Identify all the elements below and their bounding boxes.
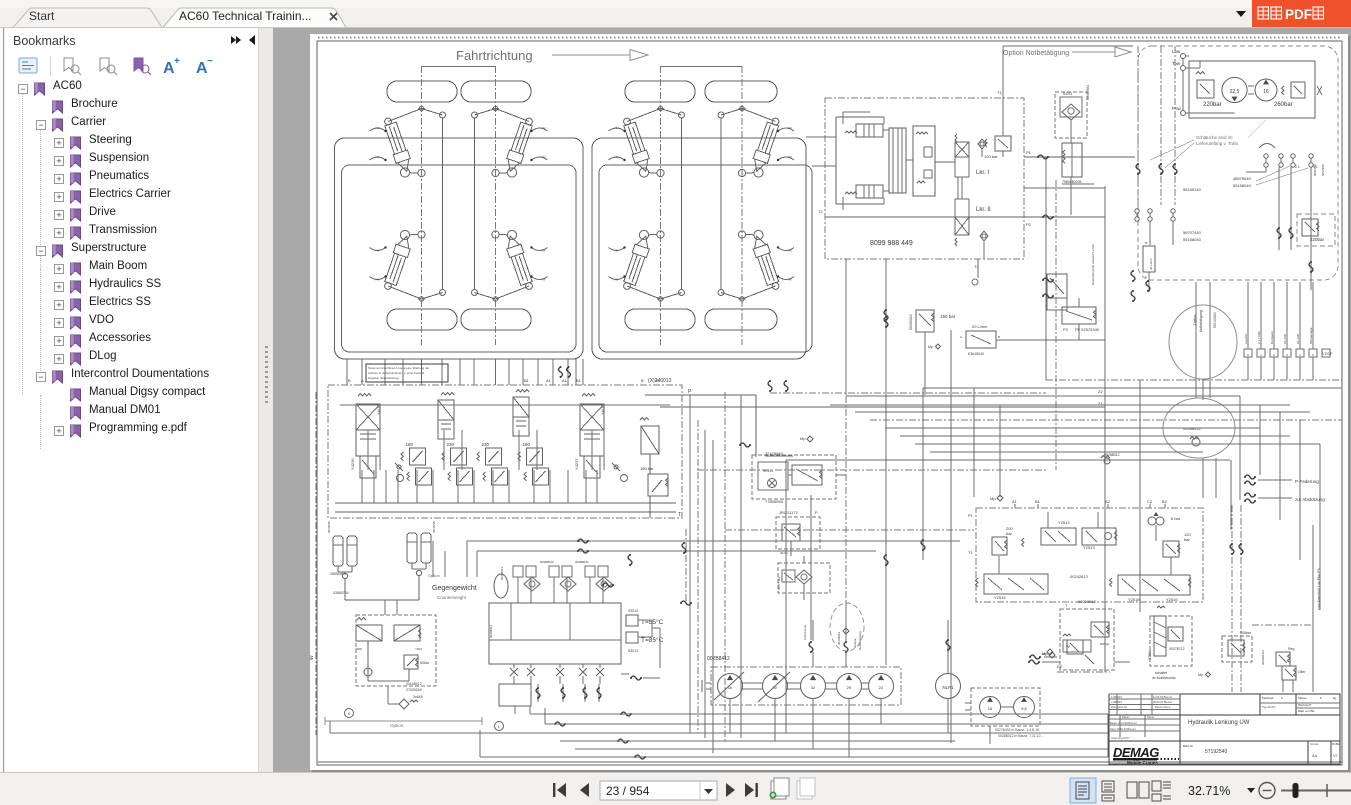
svg-text:K3b16040: K3b16040 — [968, 352, 984, 356]
svg-text:4 491223: 4 491223 — [1111, 695, 1122, 699]
svg-text:29: 29 — [847, 685, 852, 690]
svg-text:A1: A1 — [546, 378, 552, 383]
svg-text:A: A — [361, 378, 364, 383]
svg-text:Fahrtrichtung: Fahrtrichtung — [456, 48, 533, 63]
svg-text:220bar: 220bar — [1203, 102, 1222, 108]
svg-text:Maßstab: Maßstab — [1262, 696, 1274, 700]
svg-text:8091049: 8091049 — [1313, 164, 1317, 176]
svg-text:NV: NV — [615, 126, 619, 130]
svg-text:Zust Aend.-Nr.: Zust Aend.-Nr. — [1111, 705, 1128, 709]
svg-text:3 483223: 3 483223 — [1111, 700, 1122, 704]
svg-text:57192540: 57192540 — [1205, 749, 1227, 755]
svg-text:23 / 954: 23 / 954 — [606, 784, 650, 798]
svg-text:00278712: 00278712 — [1169, 647, 1185, 651]
svg-text:NLP1: NLP1 — [942, 685, 954, 690]
svg-text:Hydraulik Lenkung UW: Hydraulik Lenkung UW — [1188, 720, 1250, 726]
svg-text:11.03.04 Bremer: 11.03.04 Bremer — [1153, 695, 1172, 699]
svg-text:NV: NV — [615, 155, 619, 159]
svg-text:55158040: 55158040 — [1183, 237, 1202, 242]
svg-text:00277112: 00277112 — [777, 577, 781, 590]
svg-text:Lkr. I: Lkr. I — [976, 170, 989, 176]
svg-text:S3213: S3213 — [628, 649, 638, 653]
svg-text:P1: P1 — [968, 513, 974, 518]
svg-text:Mp: Mp — [1042, 651, 1048, 656]
svg-text:500bar: 500bar — [1100, 642, 1109, 646]
svg-text:Mp: Mp — [800, 436, 806, 441]
svg-text:Option: Option — [390, 723, 404, 728]
svg-text:im Mobilmodus: im Mobilmodus — [1152, 676, 1176, 680]
svg-text:A: A — [1145, 275, 1147, 279]
svg-text:T: T — [1065, 603, 1068, 608]
svg-text:Lkr. II: Lkr. II — [976, 207, 991, 213]
svg-text:Y2516: Y2516 — [1166, 597, 1178, 602]
svg-text:Gegengewicht: Gegengewicht — [432, 585, 477, 592]
svg-text:00288012 in Bauvr. 7,11,12...: 00288012 in Bauvr. 7,11,12... — [998, 734, 1043, 738]
svg-text:B: B — [1145, 241, 1147, 245]
svg-text:Y4236: Y4236 — [601, 405, 605, 415]
svg-text:Bl./Blle: Bl./Blle — [1332, 742, 1341, 746]
svg-text:P1-OW: P1-OW — [1296, 334, 1300, 344]
svg-text:Y2515: Y2515 — [994, 595, 1006, 600]
svg-text:B2: B2 — [1162, 499, 1168, 504]
svg-text:22: 22 — [879, 685, 884, 690]
svg-text:bar: bar — [1006, 531, 1012, 536]
svg-text:NV: NV — [542, 249, 546, 253]
svg-text:Y4237: Y4237 — [574, 458, 579, 470]
svg-text:Achsen in Uebereinstimm. v. ei: Achsen in Uebereinstimm. v. einer betrie… — [368, 371, 425, 375]
svg-text:16: 16 — [1263, 89, 1269, 95]
svg-text:180: 180 — [406, 442, 414, 447]
svg-text:20 L/min: 20 L/min — [972, 324, 987, 329]
svg-text:Option: Option — [1193, 315, 1197, 325]
svg-text:B1: B1 — [524, 378, 530, 383]
svg-text:Format: Format — [1310, 742, 1318, 746]
svg-text:002B8012: 002B8012 — [575, 560, 589, 564]
svg-text:Anti-PuLsw: Anti-PuLsw — [803, 624, 807, 640]
svg-text:00108012: 00108012 — [406, 682, 422, 686]
svg-text:T2: T2 — [818, 209, 823, 214]
svg-text:Name: Name — [1147, 715, 1154, 719]
svg-text:Gelöse: Gelöse — [853, 638, 857, 648]
svg-text:Y4236: Y4236 — [350, 458, 355, 470]
svg-text:55144340: 55144340 — [1213, 312, 1217, 328]
svg-text:Y2515: Y2515 — [1128, 597, 1140, 602]
svg-text:Reg: Reg — [1288, 647, 1294, 651]
svg-text:NV: NV — [376, 278, 380, 282]
svg-text:100 bar: 100 bar — [984, 154, 998, 159]
svg-text:Y4236: Y4236 — [377, 405, 381, 415]
svg-text:angebar (Durchleitung): angebar (Durchleitung) — [368, 376, 399, 380]
svg-text:+: + — [174, 56, 180, 67]
svg-text:Blatt von Blk: Blatt von Blk — [1298, 709, 1315, 713]
svg-text:Y2516: Y2516 — [1148, 650, 1152, 660]
svg-text:002090412: 002090412 — [1261, 650, 1265, 665]
svg-text:Oiler: Oiler — [1298, 670, 1306, 674]
svg-text:NV: NV — [542, 126, 546, 130]
svg-text:A: A — [656, 378, 659, 383]
svg-text:77806055: 77806055 — [765, 499, 784, 504]
svg-text:NV: NV — [788, 126, 792, 130]
svg-text:5: 5 — [1320, 696, 1322, 700]
svg-text:002B8012: 002B8012 — [540, 560, 554, 564]
svg-text:B1: B1 — [576, 378, 582, 383]
svg-text:Option: Option — [428, 573, 440, 578]
svg-text:A4: A4 — [1312, 753, 1318, 758]
svg-text:Notbetätigung: Notbetätigung — [1199, 310, 1203, 332]
svg-text:NV: NV — [615, 278, 619, 282]
svg-text:−: − — [207, 56, 213, 67]
svg-text:P: P — [688, 389, 692, 395]
svg-text:P2: P2 — [1063, 327, 1069, 332]
svg-text:00238012: 00238012 — [1078, 599, 1097, 604]
svg-text:32: 32 — [811, 685, 816, 690]
svg-text:Bookmarks: Bookmarks — [13, 34, 76, 48]
svg-text:6 bar: 6 bar — [1171, 516, 1181, 521]
svg-text:Counterweight: Counterweight — [437, 595, 467, 600]
svg-text:2.1: 2.1 — [1295, 165, 1300, 169]
svg-text:00288012: 00288012 — [500, 566, 504, 580]
svg-text:43563764: 43563764 — [333, 591, 349, 595]
svg-text:E: E — [1060, 664, 1063, 669]
svg-text:260bar: 260bar — [1274, 102, 1293, 108]
svg-text:NV: NV — [542, 278, 546, 282]
svg-text:Typ AC70: Typ AC70 — [1262, 705, 1275, 709]
svg-text:P1: P1 — [1026, 150, 1032, 155]
svg-text:Y2512: Y2512 — [1058, 520, 1070, 525]
svg-text:55159140: 55159140 — [1183, 187, 1202, 192]
svg-text:Mobile Cranes: Mobile Cranes — [1127, 760, 1158, 765]
svg-text:P: P — [815, 510, 818, 515]
svg-text:Mp: Mp — [990, 496, 996, 501]
svg-text:zum Anschluß Lue Pfw. P3: zum Anschluß Lue Pfw. P3 — [1317, 568, 1321, 610]
svg-text:30 L/min: 30 L/min — [1149, 258, 1153, 270]
svg-text:2 x T-OW: 2 x T-OW — [1257, 331, 1261, 344]
svg-text:60/45/48: 60/45/48 — [327, 521, 331, 533]
svg-text:Stoss am Anschluss A muss eine: Stoss am Anschluss A muss eine Drehung d… — [368, 366, 429, 370]
svg-text:32439841: 32439841 — [1086, 84, 1090, 100]
svg-text:1: 1 — [1260, 353, 1262, 357]
svg-text:T1: T1 — [968, 550, 973, 555]
svg-text:zur Abstützung: zur Abstützung — [1295, 497, 1325, 502]
svg-text:Y2513: Y2513 — [1083, 545, 1095, 550]
svg-text:Bearb 10.11.98 Bremer: Bearb 10.11.98 Bremer — [1110, 721, 1137, 725]
svg-text:Drehwerk: Drehwerk — [1270, 331, 1274, 344]
svg-text:40-90: 40-90 — [780, 551, 788, 555]
svg-text:Schläuche sind im: Schläuche sind im — [1196, 135, 1233, 140]
svg-text:3x645: 3x645 — [413, 695, 423, 699]
svg-text:A2: A2 — [1105, 499, 1111, 504]
svg-text:PDF: PDF — [1285, 7, 1312, 22]
svg-text:500bar: 500bar — [1240, 631, 1252, 635]
svg-text:Start: Start — [29, 9, 55, 23]
svg-text:8099 988 449: 8099 988 449 — [870, 240, 913, 247]
svg-text:00288012: 00288012 — [489, 624, 493, 638]
svg-text:5: 5 — [1281, 696, 1283, 700]
svg-text:55158040: 55158040 — [1233, 183, 1252, 188]
svg-text:60/45/48: 60/45/48 — [432, 521, 436, 533]
svg-text:4: 4 — [1299, 353, 1301, 357]
svg-text:Datum: Datum — [1122, 715, 1130, 719]
svg-text:Mp: Mp — [1198, 673, 1203, 677]
svg-text:V7: V7 — [1333, 753, 1339, 758]
svg-text:00108012: 00108012 — [837, 631, 841, 645]
svg-text:22,5: 22,5 — [1230, 89, 1240, 95]
svg-text:T1: T1 — [997, 90, 1002, 95]
svg-text:1 OOF: 1 OOF — [1322, 352, 1333, 356]
svg-text:B: B — [998, 335, 1000, 339]
svg-text:P2: P2 — [1026, 222, 1032, 227]
svg-text:C2: C2 — [1147, 499, 1153, 504]
svg-text:B1: B1 — [1035, 499, 1041, 504]
svg-text:Pow: Pow — [1172, 106, 1182, 111]
svg-text:S3212: S3212 — [628, 609, 638, 613]
svg-text:00276432 in Bauvr. 1-4,8-10: 00276432 in Bauvr. 1-4,8-10 — [995, 728, 1039, 732]
svg-text:NV: NV — [542, 155, 546, 159]
svg-text:NV: NV — [788, 155, 792, 159]
svg-text:7980680205: 7980680205 — [1062, 180, 1082, 184]
svg-text:bar: bar — [1184, 537, 1190, 542]
svg-text:T2: T2 — [974, 264, 979, 269]
svg-text:NV: NV — [615, 249, 619, 253]
svg-text:2: 2 — [1273, 353, 1275, 357]
svg-text:54211: 54211 — [1063, 92, 1073, 96]
svg-text:56707440: 56707440 — [1183, 230, 1202, 235]
svg-text:K: K — [348, 712, 351, 716]
svg-text:P1-OW: P1-OW — [1283, 334, 1287, 344]
svg-text:6097998: 6097998 — [1321, 164, 1325, 176]
svg-text:Low: Low — [1172, 49, 1181, 54]
svg-text:Option Notbetätigung: Option Notbetätigung — [1003, 50, 1069, 57]
svg-text:150 bar: 150 bar — [940, 314, 956, 319]
svg-text:NV: NV — [376, 155, 380, 159]
svg-text:Y601: Y601 — [415, 647, 422, 651]
svg-text:27003249: 27003249 — [406, 688, 422, 692]
svg-text:00242612: 00242612 — [1070, 574, 1089, 579]
svg-text:W: W — [310, 655, 315, 660]
svg-text:28.02.04 Bremer: 28.02.04 Bremer — [1153, 700, 1172, 704]
svg-text:32.71%: 32.71% — [1188, 784, 1230, 798]
svg-text:Z2: Z2 — [1098, 389, 1103, 394]
svg-text:Lieferumfang v. Trafo: Lieferumfang v. Trafo — [1196, 141, 1239, 146]
svg-text:65456040: 65456040 — [909, 314, 913, 330]
svg-text:B: B — [641, 378, 644, 383]
svg-text:3: 3 — [1286, 353, 1288, 357]
svg-text:schaltet: schaltet — [1155, 671, 1167, 675]
svg-text:Notbetätigung: Notbetätigung — [858, 631, 862, 650]
svg-text:A1: A1 — [562, 378, 568, 383]
svg-text:NV: NV — [376, 126, 380, 130]
svg-text:32478940: 32478940 — [765, 451, 784, 456]
svg-text:A1: A1 — [1012, 499, 1018, 504]
svg-text:Klimaanlage: Klimaanlage — [1309, 327, 1313, 344]
svg-text:T: T — [678, 512, 681, 518]
svg-text:Ursprung 9757: Ursprung 9757 — [1111, 736, 1130, 740]
svg-text:Leuchtf.: Leuchtf. — [1244, 333, 1248, 344]
svg-text:Datum Name: Datum Name — [1155, 705, 1171, 709]
svg-text:230: 230 — [482, 442, 490, 447]
svg-text:5: 5 — [1312, 353, 1314, 357]
svg-text:5,5: 5,5 — [1021, 706, 1027, 711]
svg-text:Tow: Tow — [1172, 61, 1181, 66]
svg-text:48079640: 48079640 — [1233, 176, 1252, 181]
svg-text:NV: NV — [788, 249, 792, 253]
svg-text:0: 0 — [1247, 353, 1249, 357]
svg-text:Masse: Masse — [1298, 696, 1307, 700]
svg-text:230: 230 — [447, 442, 455, 447]
svg-text:180 bar: 180 bar — [640, 466, 654, 471]
svg-text:Mp: Mp — [928, 345, 933, 349]
svg-text:kg: kg — [1333, 696, 1337, 700]
svg-text:Werkstoff: Werkstoff — [1298, 703, 1311, 707]
svg-text:220bar: 220bar — [1310, 237, 1325, 242]
svg-text:NV: NV — [376, 249, 380, 253]
svg-text:Y600: Y600 — [355, 647, 362, 651]
svg-text:180: 180 — [523, 442, 531, 447]
svg-text:16: 16 — [988, 706, 993, 711]
svg-text:Blatt-Nr.: Blatt-Nr. — [1183, 744, 1194, 748]
svg-text:A: A — [960, 335, 962, 339]
svg-text:B: B — [348, 378, 351, 383]
svg-text:L: L — [498, 725, 500, 729]
svg-text:Gepr 20.10.03 Bremer: Gepr 20.10.03 Bremer — [1110, 727, 1136, 731]
svg-text:50bar: 50bar — [420, 661, 430, 665]
svg-text:(X)246013: (X)246013 — [648, 378, 672, 384]
svg-text:NV: NV — [788, 278, 792, 282]
svg-text:002B8412: 002B8412 — [707, 656, 730, 662]
svg-text:AC60 Technical Trainin...: AC60 Technical Trainin... — [179, 9, 312, 23]
svg-text:JRG21172: JRG21172 — [779, 510, 799, 515]
svg-text:Daempfung NF einstell 5 L/min: Daempfung NF einstell 5 L/min — [1091, 243, 1095, 285]
svg-text:P-Federung: P-Federung — [1295, 479, 1319, 484]
